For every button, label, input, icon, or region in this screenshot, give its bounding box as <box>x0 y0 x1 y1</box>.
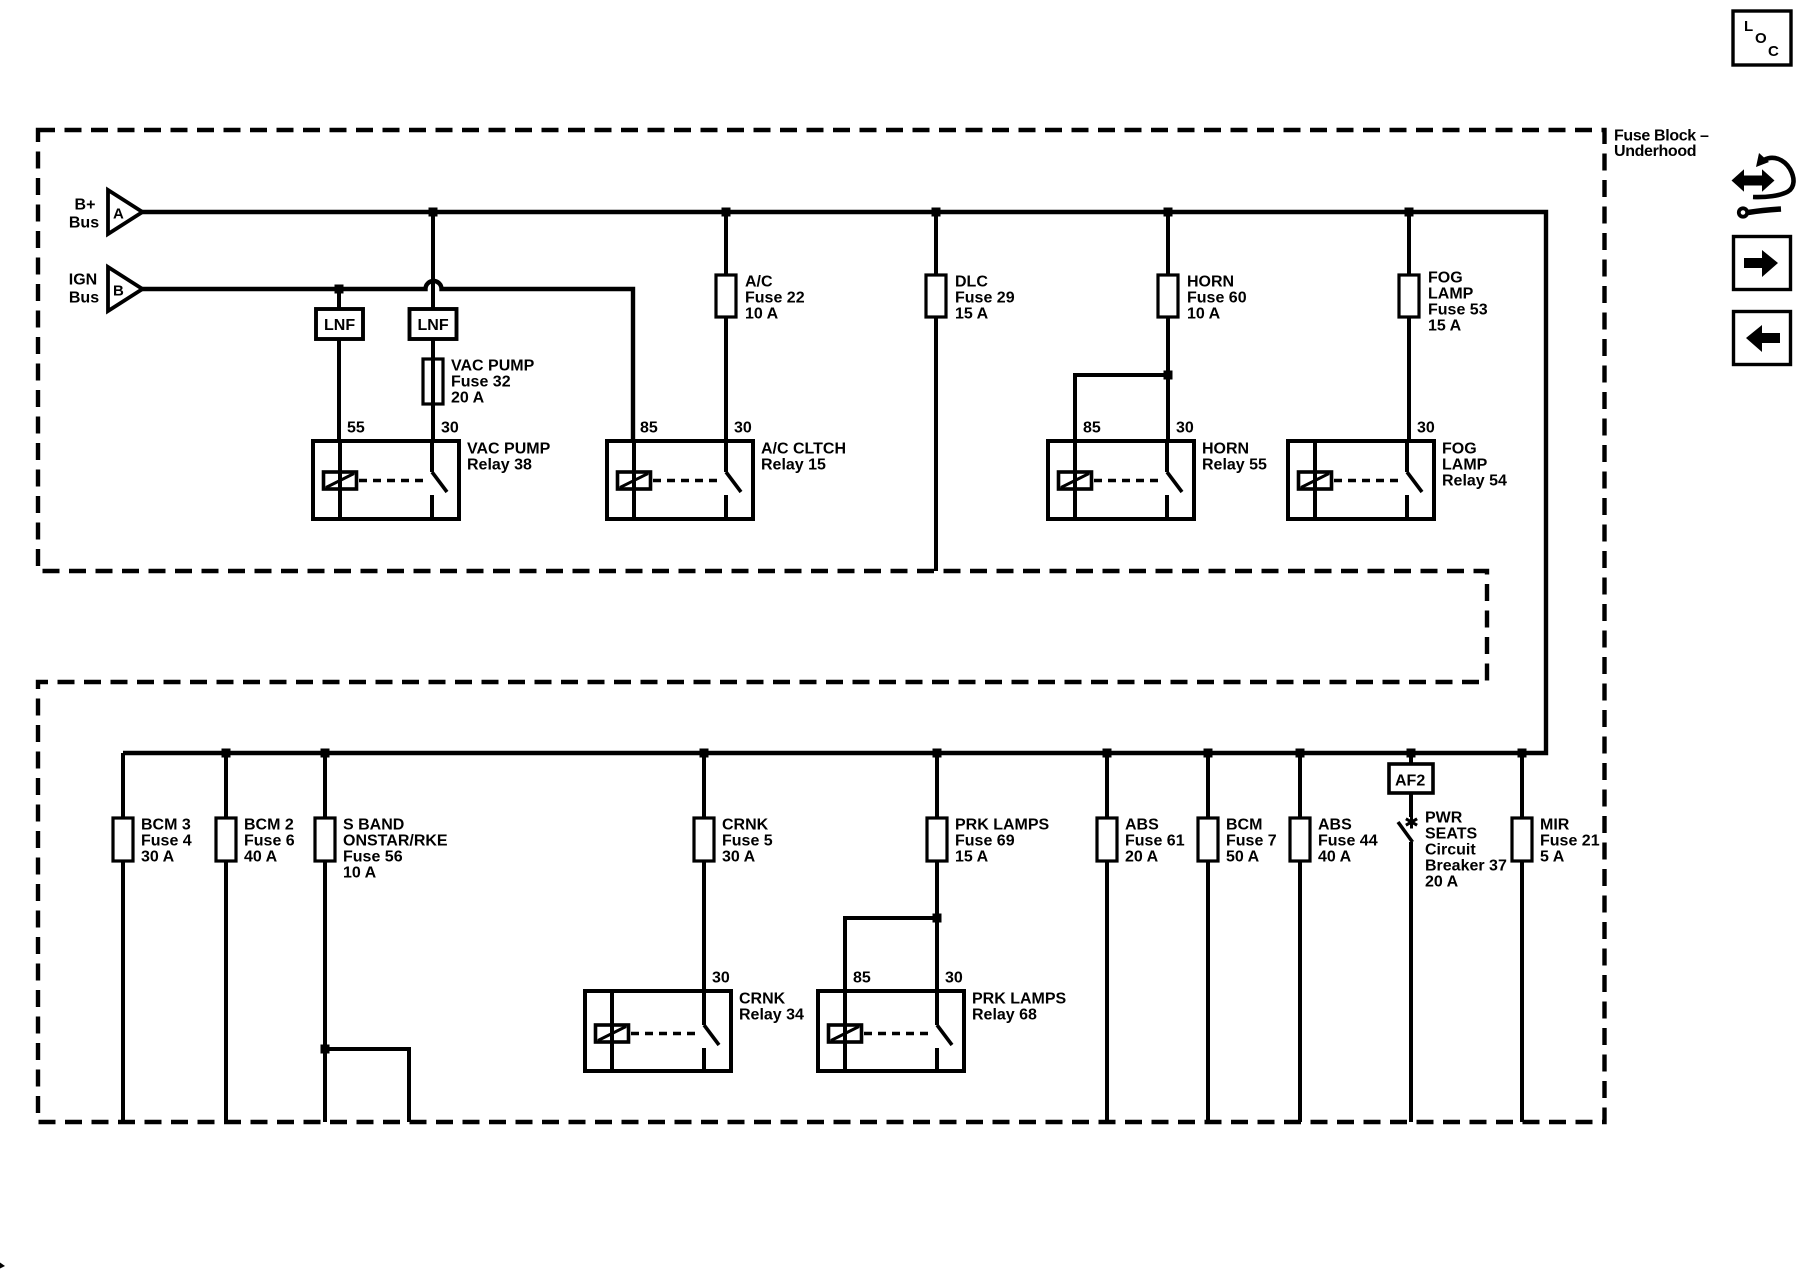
svg-text:85: 85 <box>853 970 871 987</box>
connector LNF (left) <box>316 289 363 441</box>
svg-text:O: O <box>1755 30 1767 47</box>
label FOG LAMP Relay 54 <box>1442 441 1507 490</box>
wire: A/C fuse to relay 15 <box>724 317 728 441</box>
wire: A/C fuse feed <box>724 212 728 275</box>
svg-text:Circuit: Circuit <box>1425 842 1476 859</box>
svg-text:VAC PUMP: VAC PUMP <box>467 441 551 458</box>
wire: BCM 3 output <box>121 861 125 1122</box>
svg-text:Fuse 6: Fuse 6 <box>244 833 295 850</box>
svg-text:30 A: 30 A <box>722 849 756 866</box>
svg-text:AF2: AF2 <box>1395 773 1425 790</box>
svg-text:IGN: IGN <box>69 272 97 289</box>
junction on bottom bus at AF2 feed <box>1407 749 1416 758</box>
svg-text:BCM 3: BCM 3 <box>141 817 191 834</box>
svg-text:30: 30 <box>1176 420 1194 437</box>
svg-text:Underhood: Underhood <box>1614 143 1696 160</box>
fuse F5: CRNK 30A <box>694 818 714 861</box>
svg-text:Fuse 21: Fuse 21 <box>1540 833 1600 850</box>
junction on B+ bus at VAC PUMP feed <box>429 208 438 217</box>
svg-text:Fuse 44: Fuse 44 <box>1318 833 1378 850</box>
svg-text:Bus: Bus <box>69 290 99 307</box>
svg-text:Fuse 60: Fuse 60 <box>1187 290 1247 307</box>
svg-text:30: 30 <box>1417 420 1435 437</box>
svg-text:Fuse 32: Fuse 32 <box>451 374 511 391</box>
relay K38: VAC PUMP Relay <box>313 441 459 519</box>
junction on B+ bus at FOG LAMP fuse <box>1405 208 1414 217</box>
svg-text:Fuse 61: Fuse 61 <box>1125 833 1185 850</box>
label PRK LAMPS Relay 68 <box>972 991 1067 1024</box>
pin 85 label (HORN relay) <box>1083 420 1101 437</box>
label BCM 2 Fuse 6 <box>244 817 295 866</box>
svg-text:VAC PUMP: VAC PUMP <box>451 358 535 375</box>
label DLC Fuse 29 <box>955 274 1015 323</box>
svg-text:ONSTAR/RKE: ONSTAR/RKE <box>343 833 448 850</box>
svg-text:A: A <box>113 206 124 223</box>
wire: S BAND output with branch <box>325 861 409 1122</box>
junction on B+ bus at A/C fuse <box>722 208 731 217</box>
fuse F32: VAC PUMP 20A <box>423 359 443 404</box>
junction at PRK LAMPS coil branch <box>933 914 942 923</box>
relay K54: FOG LAMP Relay <box>1288 441 1434 519</box>
label BCM 3 Fuse 4 <box>141 817 192 866</box>
svg-text:ABS: ABS <box>1318 817 1352 834</box>
fuse F29: DLC 15A <box>926 275 946 317</box>
label BCM Fuse 7 <box>1226 817 1277 866</box>
wire: B+ bus top run, right vertical, bottom distribution bus <box>123 212 1546 753</box>
pin 85 label (PRK LAMPS relay) <box>853 970 871 987</box>
junction on bottom bus at S BAND fuse <box>321 749 330 758</box>
fuse F60: HORN 10A <box>1158 275 1178 317</box>
svg-text:15 A: 15 A <box>1428 318 1462 335</box>
svg-text:PRK LAMPS: PRK LAMPS <box>955 817 1050 834</box>
svg-text:Relay 34: Relay 34 <box>739 1007 804 1024</box>
svg-text:Fuse 56: Fuse 56 <box>343 849 403 866</box>
wire: PRK LAMPS fuse drop <box>935 753 939 818</box>
label VAC PUMP Relay 38 <box>467 441 551 474</box>
fuse F53: FOG LAMP 15A <box>1399 275 1419 317</box>
junction at S BAND branch <box>321 1045 330 1054</box>
junction on bottom bus at ABS 61 fuse <box>1103 749 1112 758</box>
junction on bottom bus at PRK LAMPS fuse <box>933 749 942 758</box>
wire: ABS 61 output <box>1105 861 1109 1122</box>
fuse F61: ABS 20A <box>1097 818 1117 861</box>
svg-text:CRNK: CRNK <box>739 991 786 1008</box>
wire: S BAND fuse drop <box>323 753 327 818</box>
svg-text:20 A: 20 A <box>1125 849 1159 866</box>
svg-text:HORN: HORN <box>1202 441 1249 458</box>
label A/C Fuse 22 <box>745 274 805 323</box>
svg-text:PRK LAMPS: PRK LAMPS <box>972 991 1067 1008</box>
wire: MIR output <box>1520 861 1524 1122</box>
label VAC PUMP Fuse 32 <box>451 358 535 407</box>
connector AF2 <box>1389 753 1433 793</box>
fuse F56: S BAND ONSTAR/RKE 10A <box>315 818 335 861</box>
svg-text:40 A: 40 A <box>244 849 278 866</box>
junction on B+ bus at DLC fuse <box>932 208 941 217</box>
junction on bottom bus at BCM 2 fuse <box>222 749 231 758</box>
svg-text:SEATS: SEATS <box>1425 826 1477 843</box>
wire: HORN relay coil branch <box>1075 375 1168 441</box>
svg-text:MIR: MIR <box>1540 817 1570 834</box>
wire: MIR fuse drop <box>1520 753 1524 818</box>
svg-text:Relay 54: Relay 54 <box>1442 473 1507 490</box>
relay K15: A/C CLTCH Relay <box>607 441 753 519</box>
svg-text:Fuse 53: Fuse 53 <box>1428 302 1488 319</box>
svg-text:Bus: Bus <box>69 215 99 232</box>
node B: IGN Bus terminal triangle <box>69 267 143 311</box>
svg-text:30: 30 <box>945 970 963 987</box>
back-arrow legend box <box>1734 312 1791 365</box>
pin 30 label (FOG LAMP relay) <box>1417 420 1435 437</box>
junction at HORN coil branch <box>1164 371 1173 380</box>
svg-text:20 A: 20 A <box>451 390 485 407</box>
svg-text:HORN: HORN <box>1187 274 1234 291</box>
junction on bottom bus at ABS 44 fuse <box>1296 749 1305 758</box>
wire: IGN bus with hop over vertical, to A/C CLTCH relay coil <box>142 281 633 441</box>
junction on bottom bus at MIR fuse <box>1518 749 1527 758</box>
svg-text:50 A: 50 A <box>1226 849 1260 866</box>
label PRK LAMPS Fuse 69 <box>955 817 1050 866</box>
junction on B+ bus at HORN fuse <box>1164 208 1173 217</box>
label CRNK Relay 34 <box>739 991 804 1024</box>
svg-text:Fuse Block –: Fuse Block – <box>1614 128 1709 145</box>
label ABS Fuse 61 <box>1125 817 1185 866</box>
page artifact mark <box>0 1263 5 1269</box>
junction on IGN bus at LNF feed <box>335 285 344 294</box>
wire: HORN fuse to relay 55 pin 30 <box>1166 317 1170 441</box>
pin 30 label (VAC PUMP relay) <box>441 420 459 437</box>
svg-text:15 A: 15 A <box>955 849 989 866</box>
wire: ABS 61 fuse drop <box>1105 753 1109 818</box>
fuse F22: A/C 10A <box>716 275 736 317</box>
wire: FOG LAMP fuse feed <box>1407 212 1411 275</box>
wire: BCM 3 fuse drop <box>121 753 125 818</box>
svg-text:B+: B+ <box>75 197 96 214</box>
svg-text:Fuse 22: Fuse 22 <box>745 290 805 307</box>
svg-text:Fuse 4: Fuse 4 <box>141 833 192 850</box>
svg-text:ABS: ABS <box>1125 817 1159 834</box>
junction on bottom bus at CRNK fuse <box>700 749 709 758</box>
circuit breaker CB37: PWR SEATS 20A <box>1398 793 1417 1122</box>
wire: ABS 44 fuse drop <box>1298 753 1302 818</box>
svg-text:20 A: 20 A <box>1425 874 1459 891</box>
pin 55 label (VAC PUMP relay) <box>347 420 365 437</box>
pin 85 label (A/C CLTCH relay) <box>640 420 658 437</box>
svg-text:Fuse 7: Fuse 7 <box>1226 833 1277 850</box>
svg-text:Relay 68: Relay 68 <box>972 1007 1037 1024</box>
svg-text:30: 30 <box>734 420 752 437</box>
LOC legend box <box>1733 11 1791 65</box>
svg-text:30: 30 <box>441 420 459 437</box>
svg-text:CRNK: CRNK <box>722 817 769 834</box>
svg-text:LAMP: LAMP <box>1428 286 1474 303</box>
wire: BCM 7 output <box>1206 861 1210 1122</box>
svg-text:BCM: BCM <box>1226 817 1262 834</box>
svg-text:S BAND: S BAND <box>343 817 404 834</box>
forward-arrow legend box <box>1734 237 1791 290</box>
label CRNK Fuse 5 <box>722 817 773 866</box>
svg-text:LAMP: LAMP <box>1442 457 1488 474</box>
label A/C CLTCH Relay 15 <box>761 441 846 474</box>
svg-text:Fuse 29: Fuse 29 <box>955 290 1015 307</box>
svg-text:5 A: 5 A <box>1540 849 1565 866</box>
label MIR Fuse 21 <box>1540 817 1600 866</box>
svg-text:L: L <box>1744 18 1753 35</box>
fuse F7: BCM 50A <box>1198 818 1218 861</box>
fuse F4: BCM 3 30A <box>113 818 133 861</box>
wire: FOG LAMP fuse to relay 54 pin 30 <box>1407 317 1411 441</box>
wire: PRK LAMPS fuse to relay 68 with coil branch <box>845 861 937 991</box>
svg-text:BCM 2: BCM 2 <box>244 817 294 834</box>
svg-text:LNF: LNF <box>324 317 355 334</box>
svg-text:Breaker 37: Breaker 37 <box>1425 858 1507 875</box>
wire: CRNK fuse drop <box>702 753 706 818</box>
svg-text:30: 30 <box>712 970 730 987</box>
wire: BCM 2 output <box>224 861 228 1122</box>
relay K34: CRNK Relay <box>585 991 731 1071</box>
node A: B+ Bus terminal triangle <box>69 190 143 234</box>
svg-text:DLC: DLC <box>955 274 988 291</box>
label PWR SEATS Circuit Breaker 37 <box>1425 810 1507 891</box>
svg-text:A/C: A/C <box>745 274 773 291</box>
svg-text:15 A: 15 A <box>955 306 989 323</box>
label HORN Fuse 60 <box>1187 274 1247 323</box>
label HORN Relay 55 <box>1202 441 1267 474</box>
relay K55: HORN Relay <box>1048 441 1194 519</box>
svg-text:55: 55 <box>347 420 365 437</box>
connector LNF (right) <box>410 212 457 441</box>
svg-text:PWR: PWR <box>1425 810 1463 827</box>
svg-text:40 A: 40 A <box>1318 849 1352 866</box>
svg-text:A/C CLTCH: A/C CLTCH <box>761 441 846 458</box>
wire: BCM 7 fuse drop <box>1206 753 1210 818</box>
fuse F44: ABS 40A <box>1290 818 1310 861</box>
svg-text:C: C <box>1768 43 1779 60</box>
label ABS Fuse 44 <box>1318 817 1378 866</box>
wire: CRNK fuse to relay 34 pin 30 <box>702 861 706 991</box>
svg-text:10 A: 10 A <box>1187 306 1221 323</box>
pin 30 label (HORN relay) <box>1176 420 1194 437</box>
wire: BCM 2 fuse drop <box>224 753 228 818</box>
pin 30 label (A/C CLTCH relay) <box>734 420 752 437</box>
wire: DLC fuse feed <box>934 212 938 275</box>
wire: DLC fuse output leaving block <box>934 317 938 571</box>
svg-text:Relay 38: Relay 38 <box>467 457 532 474</box>
svg-text:10 A: 10 A <box>343 865 377 882</box>
Fuse Block - Underhood dashed outline <box>38 130 1605 1122</box>
svg-text:Relay 15: Relay 15 <box>761 457 826 474</box>
wire: HORN fuse feed <box>1166 212 1170 275</box>
label FOG LAMP Fuse 53 <box>1428 270 1488 335</box>
svg-text:B: B <box>113 283 124 300</box>
label S BAND ONSTAR/RKE Fuse 56 <box>343 817 448 882</box>
pin 30 label (CRNK relay) <box>712 970 730 987</box>
svg-text:10 A: 10 A <box>745 306 779 323</box>
label: Fuse Block - Underhood <box>1614 128 1709 161</box>
fuse F69: PRK LAMPS 15A <box>927 818 947 861</box>
svg-text:FOG: FOG <box>1428 270 1463 287</box>
svg-text:85: 85 <box>640 420 658 437</box>
relay K68: PRK LAMPS Relay <box>818 991 964 1071</box>
svg-text:30 A: 30 A <box>141 849 175 866</box>
svg-text:Relay 55: Relay 55 <box>1202 457 1267 474</box>
svg-text:Fuse 69: Fuse 69 <box>955 833 1015 850</box>
svg-text:LNF: LNF <box>418 317 449 334</box>
svg-text:FOG: FOG <box>1442 441 1477 458</box>
routing arrows icon <box>1733 153 1794 217</box>
fuse F6: BCM 2 40A <box>216 818 236 861</box>
svg-text:85: 85 <box>1083 420 1101 437</box>
pin 30 label (PRK LAMPS relay) <box>945 970 963 987</box>
wire: ABS 44 output <box>1298 861 1302 1122</box>
svg-text:Fuse 5: Fuse 5 <box>722 833 773 850</box>
fuse F21: MIR 5A <box>1512 818 1532 861</box>
junction on bottom bus at BCM 7 fuse <box>1204 749 1213 758</box>
